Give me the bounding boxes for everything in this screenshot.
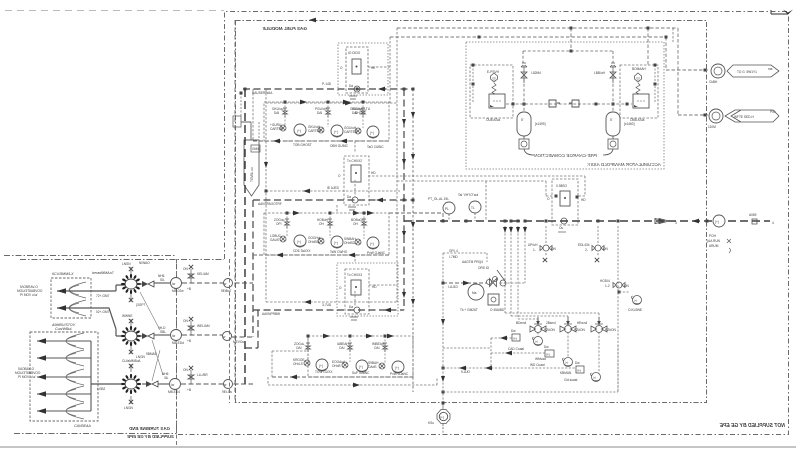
- node: pilot dotted enclosure: [338, 43, 388, 95]
- component: PT instrument 1: [443, 202, 455, 214]
- svg-text:KBMAN: KBMAN: [560, 371, 572, 375]
- node: tag box: [251, 145, 260, 152]
- svg-text:WMvaa: WMvaa: [535, 357, 546, 361]
- svg-text:O: O: [339, 286, 342, 290]
- node: CHXX dotted box: [552, 179, 578, 225]
- svg-text:HD: HD: [581, 198, 586, 202]
- svg-text:OBH GUBIC: OBH GUBIC: [330, 144, 349, 148]
- wire: vertical boundary x=176: [176, 259, 178, 447]
- component: control valve group: [487, 280, 492, 285]
- svg-text:Dw: Dw: [544, 345, 549, 349]
- svg-text:OH: OH: [353, 222, 358, 226]
- svg-text:1-: 1-: [533, 248, 536, 252]
- svg-text:OAdS: OAdS: [368, 365, 377, 369]
- svg-text:CkBH: CkBH: [709, 80, 718, 84]
- svg-text:TaI 'VH"IO"auI: TaI 'VH"IO"auI: [458, 193, 478, 197]
- flame curves lower: [66, 333, 84, 349]
- svg-text:RZ#ON: RZ#ON: [574, 328, 586, 332]
- svg-text:CARTER: CARTER: [308, 129, 322, 133]
- wire: dashed to module row3: [181, 383, 253, 385]
- component: valve on x=619 with pot: [616, 282, 622, 288]
- svg-text:+B: +B: [187, 339, 191, 343]
- svg-text:ORS IG: ORS IG: [478, 266, 490, 270]
- svg-text:WD Cuaal: WD Cuaal: [530, 363, 545, 367]
- component: pressure instrument: [437, 410, 450, 424]
- svg-text:LNGN: LNGN: [124, 406, 134, 410]
- svg-text:OHdS: OHdS: [332, 364, 341, 368]
- pots row1: [294, 124, 306, 136]
- node: accumulator dotted box: [466, 42, 664, 169]
- svg-text:PT_OL,AL 19L: PT_OL,AL 19L: [428, 197, 449, 201]
- component: vent valve on x=546: [543, 245, 549, 251]
- node: CHXX3 inner dotted box: [345, 269, 369, 314]
- svg-text:Ma: Ma: [472, 291, 477, 295]
- svg-text:TO G .9W1Y1: TO G .9W1Y1: [737, 70, 757, 74]
- svg-text:HD: HD: [372, 285, 377, 289]
- svg-text:MB.EDd: MB.EDd: [172, 341, 184, 345]
- svg-text:2Bwn4: 2Bwn4: [546, 321, 556, 325]
- svg-text:DAI: DAI: [317, 111, 322, 115]
- row 3: [142, 366, 253, 394]
- component: positioner rect: [352, 59, 361, 74]
- component: restriction box 2 + pot: [545, 350, 554, 357]
- svg-text:LBB/uH: LBB/uH: [594, 71, 606, 75]
- svg-text:I-82M4: I-82M4: [531, 71, 541, 75]
- wire: dotted vertical x=413: [412, 89, 414, 392]
- wire: row3 bottom lines: [272, 376, 413, 378]
- svg-text:(¼): (¼): [546, 353, 550, 357]
- wire: heavy vertical x=245 with vent corner: [244, 89, 246, 384]
- svg-text:+B: +B: [187, 287, 191, 291]
- diagonal crossover lines: [140, 292, 160, 330]
- wire: row2 feed from main line: [389, 213, 443, 221]
- component: off-page connector 1: [711, 64, 725, 78]
- valve PSV left: [521, 63, 527, 83]
- component: small circle row2 right: [223, 332, 232, 341]
- svg-text:BDwn4: BDwn4: [516, 321, 527, 325]
- component: quick connects: [549, 100, 560, 107]
- svg-text:ON: ON: [551, 247, 556, 251]
- svg-text:NOT SUPPLIED BY GE EPE: NOT SUPPLIED BY GE EPE: [719, 423, 785, 429]
- svg-text:[x1460]: [x1460]: [624, 122, 635, 126]
- svg-text:OAI: OAI: [296, 346, 302, 350]
- svg-text:6CU/9MM/LX: 6CU/9MM/LX: [52, 272, 74, 276]
- wire: faint top-left dash line: [5, 10, 224, 12]
- wire: dashed to module: [182, 282, 253, 284]
- svg-text:GM4: GM4: [252, 147, 259, 151]
- component: actuator circle: [468, 284, 484, 300]
- svg-text:4: 4: [772, 221, 774, 225]
- svg-text:PI MOV u/u/: PI MOV u/u/: [18, 375, 35, 379]
- svg-text:IO DIDO: IO DIDO: [348, 51, 361, 55]
- wire: vertical dash x=235: [234, 20, 236, 403]
- svg-text:1-2: 1-2: [605, 284, 610, 288]
- feed to nozzle 3: [91, 383, 124, 385]
- svg-text:AAGTM PRQ4: AAGTM PRQ4: [462, 260, 483, 264]
- component: positioner rect 2: [351, 165, 361, 182]
- svg-text:DAI: DAI: [274, 111, 279, 115]
- svg-text:ON: ON: [624, 284, 629, 288]
- wire: accumulator feed: [570, 28, 572, 51]
- svg-text:IE AJED: IE AJED: [327, 186, 340, 190]
- node: bottom solid page line: [0, 446, 796, 448]
- svg-text:GPL 4: GPL 4: [449, 249, 458, 253]
- svg-text:(+): (+): [715, 220, 719, 224]
- wire: HE dash to corner: [368, 66, 390, 68]
- component: positioner rect: [560, 191, 570, 206]
- row 1 check valve/instrument/valve: [138, 265, 253, 293]
- component: small box left column: [233, 116, 241, 127]
- wire: row1 bottom line: [253, 140, 389, 142]
- svg-text:[x1499]: [x1499]: [535, 122, 546, 126]
- svg-text:TsW CWHO: TsW CWHO: [330, 250, 348, 254]
- svg-text:OPI: OPI: [276, 222, 282, 226]
- svg-text:CARTER: CARTER: [344, 130, 358, 134]
- component: accumulator capsule 2: [606, 112, 620, 149]
- svg-text:EDL434: EDL434: [578, 243, 590, 247]
- fuel arrows into upper chamber: [57, 285, 125, 291]
- svg-text:beradMMAa7: beradMMAa7: [92, 271, 115, 275]
- svg-text:PRE-CHARGE CONNECTION: PRE-CHARGE CONNECTION: [534, 153, 597, 158]
- svg-text:)3GP7: )3GP7: [136, 303, 145, 307]
- svg-text:O: O: [547, 197, 550, 201]
- component: solenoid vent valve 2: [560, 317, 576, 333]
- flame curves upper: [69, 282, 86, 298]
- svg-text:PvW GJaNC: PvW GJaNC: [390, 372, 409, 376]
- node: lower combustion chamber box: [30, 332, 98, 421]
- component: check valve row2: [142, 333, 154, 339]
- svg-text:BOMAAH: BOMAAH: [632, 67, 647, 71]
- component: reducer double chevron: [655, 219, 669, 224]
- svg-text:(¼): (¼): [577, 369, 581, 373]
- row 2: [138, 317, 244, 345]
- svg-text:Dw: Dw: [511, 329, 516, 333]
- svg-text:LNSN: LNSN: [122, 262, 131, 266]
- wire: signal dotted y=175: [368, 176, 585, 196]
- wire: pre-charge hooks: [524, 149, 534, 155]
- svg-text:2-: 2-: [585, 248, 588, 252]
- svg-text:HODI4: HODI4: [600, 279, 610, 283]
- svg-text:ON: ON: [183, 319, 188, 323]
- label NOT SUPPLIED BY GE EPE (mirrored): [719, 423, 785, 429]
- wire: heavy vertical x=253 lower: [252, 200, 254, 337]
- svg-text:O: O: [338, 174, 341, 178]
- svg-text:KSu: KSu: [428, 421, 434, 425]
- svg-text:9-AJO: 9-AJO: [461, 370, 471, 374]
- svg-text:Da: Da: [349, 305, 353, 309]
- svg-text:I-7MD: I-7MD: [449, 255, 458, 259]
- svg-text:OHd-S: OHd-S: [293, 362, 303, 366]
- svg-text:PL: PL: [445, 207, 449, 211]
- svg-text:RZ#ON: RZ#ON: [605, 328, 617, 332]
- svg-text:TOW GJ/XX: TOW GJ/XX: [315, 370, 333, 374]
- wire: interface dash-dot line upper: [4, 255, 176, 257]
- corner bracket top right: [771, 10, 788, 14]
- wire: dashed to module: [182, 334, 232, 336]
- label GAS FUEL MODULE (mirrored): [262, 26, 307, 31]
- svg-text:9Et-Ou: 9Et-Ou: [222, 390, 232, 394]
- wire: fourth dashed line y=37 to connector 1: [390, 37, 710, 70]
- svg-text:Tk + GM26T: Tk + GM26T: [460, 308, 478, 312]
- component: small circle on pilot line: [354, 86, 360, 92]
- svg-text:SuP GJaNC: SuP GJaNC: [352, 371, 370, 375]
- svg-text:OHdSD: OHdSD: [344, 241, 356, 245]
- component: small circle on heavy line 2: [352, 197, 358, 203]
- svg-text:Cua/WBuL: Cua/WBuL: [55, 327, 72, 331]
- node: cluster box row3: [308, 336, 413, 377]
- svg-text:OH: OH: [319, 222, 324, 226]
- svg-text:CAVBEAA: CAVBEAA: [74, 424, 91, 428]
- node: CHXX3 outer dotted box: [337, 263, 398, 316]
- wire: vent dotted y=191: [266, 190, 400, 192]
- wire: module right edge inner elements: [672, 28, 674, 42]
- svg-text:Cld suaal: Cld suaal: [564, 378, 578, 382]
- wire: vent dotted y=302: [266, 301, 397, 303]
- svg-text:SUPPLIED BY GE EPE: SUPPLIED BY GE EPE: [126, 434, 174, 439]
- component: small circle row1 right: [224, 279, 233, 288]
- svg-text:110M: 110M: [708, 125, 716, 129]
- component: flow instrument circle right: [713, 215, 725, 227]
- svg-text:CAD Cuaal: CAD Cuaal: [508, 347, 524, 351]
- wire: bottom collector y=392: [443, 345, 618, 392]
- svg-text:SIL: SIL: [160, 278, 165, 282]
- svg-text:OU8 ASIa: OU8 ASIa: [486, 118, 500, 122]
- svg-text:(AA RUN: (AA RUN: [707, 239, 721, 243]
- wire: dotted vertical x=253: [252, 89, 254, 140]
- svg-text:A069: A069: [749, 213, 757, 217]
- svg-text:POH: POH: [709, 234, 717, 238]
- svg-text:N/WAO: N/WAO: [139, 261, 150, 265]
- svg-text:OAI: OAI: [374, 346, 380, 350]
- component: instrument circle row2: [171, 330, 182, 341]
- component: vent valve on x=598: [595, 245, 601, 251]
- svg-text:(+): (+): [440, 416, 444, 420]
- wire: interface dash-dot line lower: [20, 259, 224, 261]
- wire: corner to fuel flow: [443, 253, 487, 262]
- svg-text:Da: Da: [349, 84, 353, 88]
- node: outer boundary dashed box (NOT SUPPLIED BY GE EPE): [177, 12, 789, 435]
- component: small circle on heavy line 3: [354, 307, 360, 313]
- svg-text:TL: TL: [471, 206, 475, 210]
- svg-text:Ou: Ou: [559, 226, 563, 230]
- svg-text:CU/aMMBu/L: CU/aMMBu/L: [122, 359, 141, 363]
- svg-text:I-GB2: I-GB2: [97, 387, 106, 391]
- wire: bus verticals from main line: [505, 226, 599, 323]
- label GAS TURBINE END (mirrored): [128, 426, 170, 431]
- node: right regulator box: [620, 65, 658, 118]
- nozzle star 1: [121, 274, 141, 294]
- svg-text:P-14D: P-14D: [322, 82, 332, 86]
- label SUPPLIED BY GE EPE (mirrored): [126, 434, 174, 439]
- wire: heavy dashed line y=200: [253, 199, 413, 201]
- label ACCUMULATOR MANIFOLD ASSY (mirrored): [587, 162, 662, 167]
- svg-text:3-7UD: 3-7UD: [322, 303, 332, 307]
- component: check valve row1: [142, 281, 154, 287]
- svg-text:Dw: Dw: [575, 361, 580, 365]
- svg-text:TGVBL uu: TGVBL uu: [250, 167, 254, 182]
- wire: heavy vertical x=404: [403, 89, 405, 310]
- wire: feed from row2: [354, 255, 356, 307]
- component: valve circle on main line: [561, 218, 567, 224]
- node: GE side lower boundary: [14, 433, 176, 435]
- wire: main heavy dashed gas line: [404, 220, 770, 222]
- svg-text:GAS FUEL MODULE: GAS FUEL MODULE: [262, 26, 307, 31]
- svg-text:RZ#ON: RZ#ON: [544, 328, 556, 332]
- component: instrument circle row1: [171, 278, 182, 289]
- svg-text:HAUSERWAA: HAUSERWAA: [252, 91, 273, 95]
- svg-text:72+-GM7: 72+-GM7: [96, 294, 110, 298]
- svg-text:ON: ON: [183, 267, 188, 271]
- svg-text:DAI: DAI: [352, 111, 357, 115]
- wire: leader dotted lines: [491, 337, 512, 339]
- svg-text:ma: ma: [768, 67, 773, 71]
- svg-text:WWNE: WWNE: [122, 314, 132, 318]
- component: vent valve column row3: [190, 370, 192, 384]
- svg-text:CD5-TaJ/XX: CD5-TaJ/XX: [293, 249, 311, 253]
- svg-text:GAUS: GAUS: [270, 238, 279, 242]
- svg-text:9EtBu7: 9EtBu7: [221, 289, 232, 293]
- svg-text:I-AJ1D: I-AJ1D: [448, 285, 458, 289]
- component: solenoid vent valve 1: [530, 317, 546, 333]
- svg-text:TOB GHOST: TOB GHOST: [293, 143, 312, 147]
- label PRE-CHARGE CONNECTION (mirrored): [534, 153, 597, 158]
- component: positioner rect 3: [351, 280, 361, 295]
- wire: dotted vertical x=443: [442, 253, 444, 433]
- svg-text:0-98SO: 0-98SO: [556, 184, 568, 188]
- svg-text:PI MOV u/u/: PI MOV u/u/: [20, 293, 37, 297]
- component: off-page connector 2: [709, 109, 723, 123]
- wire: purge header vertical x=229: [229, 259, 231, 403]
- svg-text:MB.02w: MB.02w: [172, 289, 184, 293]
- node: cluster box row2: [264, 213, 389, 255]
- svg-text:+B: +B: [187, 388, 191, 392]
- component: vent valve column row2: [190, 321, 192, 335]
- svg-text:MB.ED4: MB.ED4: [168, 390, 180, 394]
- svg-text:MEVOu: MEVOu: [233, 340, 244, 344]
- svg-text:ON: ON: [183, 368, 188, 372]
- node: inner module dash-dot box GAS FUEL MODULE: [236, 21, 707, 403]
- collector and arrows lower chamber: [90, 341, 92, 411]
- wire: dashed feed: [443, 282, 487, 284]
- valve PSV right: [610, 63, 616, 83]
- svg-text:HD: HD: [371, 171, 376, 175]
- node: left regulator box: [470, 65, 513, 118]
- svg-text:SBL: SBL: [160, 330, 166, 334]
- svg-text:GAS TURBINE END: GAS TURBINE END: [128, 426, 170, 431]
- wire: verticals from main line to vent assembly: [598, 226, 618, 392]
- wire: center manifold line: [506, 103, 632, 105]
- node: vertical banner flag: [244, 140, 259, 196]
- svg-text:02+-GM7: 02+-GM7: [96, 310, 110, 314]
- component: accumulator capsule 1: [517, 112, 531, 149]
- wire: signal dotted y=181: [397, 181, 552, 196]
- svg-text:PvW GJaNC: PvW GJaNC: [367, 251, 386, 255]
- wire: purge vertical x=269: [265, 89, 267, 302]
- node: upper combustion chamber box: [51, 278, 91, 318]
- svg-text:Tx CHXX3: Tx CHXX3: [347, 273, 362, 277]
- node: inner CHXX box: [346, 47, 368, 93]
- svg-text:3IL: 3IL: [164, 376, 169, 380]
- component: check valve row3: [146, 381, 158, 387]
- svg-text:(¼): (¼): [513, 337, 517, 341]
- valve row1: [285, 102, 363, 128]
- wire: vent corners x=390,397: [389, 37, 391, 103]
- svg-text:WFTE SED-H: WFTE SED-H: [734, 115, 755, 119]
- svg-text:ARUM: ARUM: [709, 244, 719, 248]
- svg-text:9BMAE: 9BMAE: [146, 352, 157, 356]
- svg-text:LLL/BR: LLL/BR: [197, 373, 208, 377]
- node: CHXX2 dotted box: [344, 156, 369, 205]
- wire: row2 heavy link to x=253: [232, 336, 253, 338]
- component: restriction box 1 + pot: [512, 334, 520, 341]
- wire: third dashed line y=28 to connector 2: [397, 28, 708, 115]
- component: vent valve column row1: [190, 269, 192, 283]
- svg-text:AAVGPAOOTRF: AAVGPAOOTRF: [258, 202, 282, 206]
- svg-text:O: O: [340, 66, 343, 70]
- svg-text:HEwn4: HEwn4: [577, 321, 588, 325]
- wire: down drops: [524, 79, 613, 112]
- svg-text:O 45AIBD: O 45AIBD: [490, 308, 505, 312]
- wire: pilot heavy dashed line y=89: [243, 88, 413, 90]
- svg-text:ACCUMULATOR MANIFOLD ASSY.: ACCUMULATOR MANIFOLD ASSY.: [587, 162, 662, 167]
- svg-text:PIO: PIO: [770, 110, 776, 114]
- svg-text:UP/uH: UP/uH: [528, 243, 538, 247]
- wire: feed from row1: [354, 141, 356, 197]
- wire: top header: [523, 50, 613, 52]
- component: positioner box: [488, 294, 499, 305]
- wire: heavy dashed line y=310: [253, 309, 404, 311]
- component: TE instrument 2: [469, 201, 481, 213]
- svg-text:Tx CHXX2: Tx CHXX2: [347, 159, 362, 163]
- wire: right regulator feed: [647, 28, 649, 65]
- svg-text:TaO CUBIC: TaO CUBIC: [367, 145, 384, 149]
- nozzle star 2: [121, 326, 141, 346]
- wire: valve drops: [538, 332, 599, 373]
- svg-text:ON: ON: [603, 247, 608, 251]
- wire: dotted y=103: [266, 102, 397, 104]
- svg-text:O-KLBNE: O-KLBNE: [628, 308, 642, 312]
- component: solenoid vent valve 3: [591, 317, 607, 333]
- svg-text:CARTER: CARTER: [270, 127, 284, 131]
- svg-text:AAVNPRBW: AAVNPRBW: [262, 312, 280, 316]
- svg-text:3: 3: [675, 221, 677, 225]
- svg-text:Da: Da: [347, 195, 351, 199]
- wire: row2 bottom line: [253, 254, 389, 256]
- component: small circle row3 right: [224, 380, 233, 389]
- node: cluster box row1: [264, 102, 389, 141]
- svg-text:WEL/AM: WEL/AM: [197, 324, 210, 328]
- component: instrument circle row3: [170, 379, 181, 390]
- svg-text:OAI: OAI: [339, 346, 345, 350]
- component: restriction box 3 + pot: [576, 366, 584, 373]
- nozzle star 3: [121, 374, 141, 394]
- svg-text:OHdSO: OHdSO: [308, 240, 320, 244]
- svg-text:KEL/AM: KEL/AM: [197, 272, 209, 276]
